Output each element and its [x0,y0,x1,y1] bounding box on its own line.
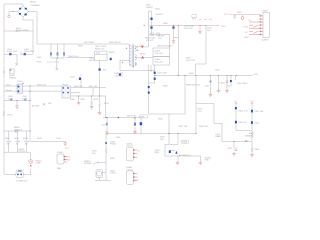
svg-text:S-GND: S-GND [205,157,212,159]
svg-text:W6754: W6754 [89,60,96,62]
svg-text:R631 10K: R631 10K [127,115,137,117]
svg-text:4.7K: 4.7K [198,111,203,113]
svg-text:UF4007: UF4007 [156,14,164,16]
svg-text:47K 471: 47K 471 [146,40,154,42]
svg-text:1M: 1M [16,144,19,146]
svg-text:YTP-04: YTP-04 [126,169,134,171]
svg-text:R627 10K: R627 10K [179,126,189,128]
svg-text:10D471K: 10D471K [14,129,23,131]
svg-text:1N4007: 1N4007 [146,7,154,9]
svg-text:C614 1000u: C614 1000u [237,83,248,85]
svg-text:YTP-03: YTP-03 [18,151,26,153]
svg-text:SW: SW [48,103,51,105]
svg-text:10K 1/2W: 10K 1/2W [186,60,195,62]
svg-text:JP601: JP601 [7,115,14,117]
svg-text:C1815: C1815 [110,173,117,175]
svg-text:TH601 5D-9: TH601 5D-9 [68,56,80,58]
svg-text:DC FAN 12V: DC FAN 12V [16,179,28,182]
svg-text:R604 100: R604 100 [74,86,84,88]
svg-text:R638 R639 102: R638 R639 102 [186,85,201,87]
svg-text:RY601: RY601 [62,85,69,87]
svg-text:POWER: POWER [84,163,92,165]
svg-text:GND: GND [205,160,210,162]
svg-text:R636 0.22: R636 0.22 [95,48,105,50]
svg-text:T601 EER-35: T601 EER-35 [109,42,122,44]
svg-text:R612 10K: R612 10K [255,111,265,113]
svg-text:C620 470P: C620 470P [157,73,168,75]
svg-text:CN602: CN602 [262,11,269,13]
svg-text:100u 25V: 100u 25V [184,28,193,30]
svg-text:R613 1K: R613 1K [239,122,247,124]
svg-text:P-ON: P-ON [243,26,249,28]
svg-text:B-ASSY: B-ASSY [262,39,270,42]
svg-text:T2.5A 250VAC: T2.5A 250VAC [16,29,30,32]
svg-text:222M: 222M [22,99,27,101]
svg-text:1M: 1M [25,144,28,146]
svg-text:472M 250V: 472M 250V [24,51,35,53]
svg-text:+12V: +12V [66,157,71,159]
svg-text:AC250V: AC250V [32,104,40,107]
svg-text:R605 100: R605 100 [89,86,99,88]
svg-text:6.8K: 6.8K [249,135,254,137]
svg-text:R628 10K: R628 10K [199,126,209,128]
svg-text:D607 R635: D607 R635 [84,42,95,44]
svg-text:250V: 250V [37,61,42,63]
svg-text:GND: GND [244,37,249,39]
svg-text:BEAD: BEAD [216,135,222,138]
svg-text:SB560: SB560 [140,53,147,55]
svg-text:PC601: PC601 [110,144,117,146]
svg-text:FAN: FAN [57,167,61,170]
svg-text:YTP-04: YTP-04 [126,146,134,148]
svg-text:SCK-053: SCK-053 [155,53,164,55]
svg-text:IC602: IC602 [182,142,188,144]
svg-text:FAN601: FAN601 [17,169,25,172]
svg-text:SMPS: SMPS [109,52,115,54]
svg-text:D605 EC31QS04: D605 EC31QS04 [157,46,173,48]
svg-text:C1 C2 C3 X2: C1 C2 C3 X2 [47,61,60,63]
svg-text:1M: 1M [7,144,10,146]
svg-text:GND: GND [66,160,71,162]
svg-text:C613a: C613a [220,83,227,85]
svg-text:40mH: 40mH [6,90,12,92]
svg-text:VCC: VCC [192,18,197,20]
svg-text:R611 4.7K: R611 4.7K [239,111,249,113]
svg-text:C608 472: C608 472 [115,76,125,78]
svg-text:LF601: LF601 [17,81,24,83]
svg-text:GND: GND [134,180,139,182]
svg-text:222M: 222M [8,99,13,101]
svg-text:LAMP: LAMP [36,162,42,165]
svg-text:472M 250V: 472M 250V [7,51,18,53]
svg-text:R643 473: R643 473 [37,85,47,87]
svg-text:CN605: CN605 [57,152,64,154]
svg-text:BR601: BR601 [30,2,37,4]
svg-text:+13V: +13V [253,74,258,76]
svg-text:STR: STR [96,53,101,55]
svg-text:SCK-053: SCK-053 [155,62,164,64]
svg-text:AZ431AZ-E1: AZ431AZ-E1 [179,154,191,157]
svg-text:D3SBA60: D3SBA60 [31,4,41,7]
svg-text:VCC: VCC [224,14,229,16]
svg-text:TNR601: TNR601 [9,77,17,79]
